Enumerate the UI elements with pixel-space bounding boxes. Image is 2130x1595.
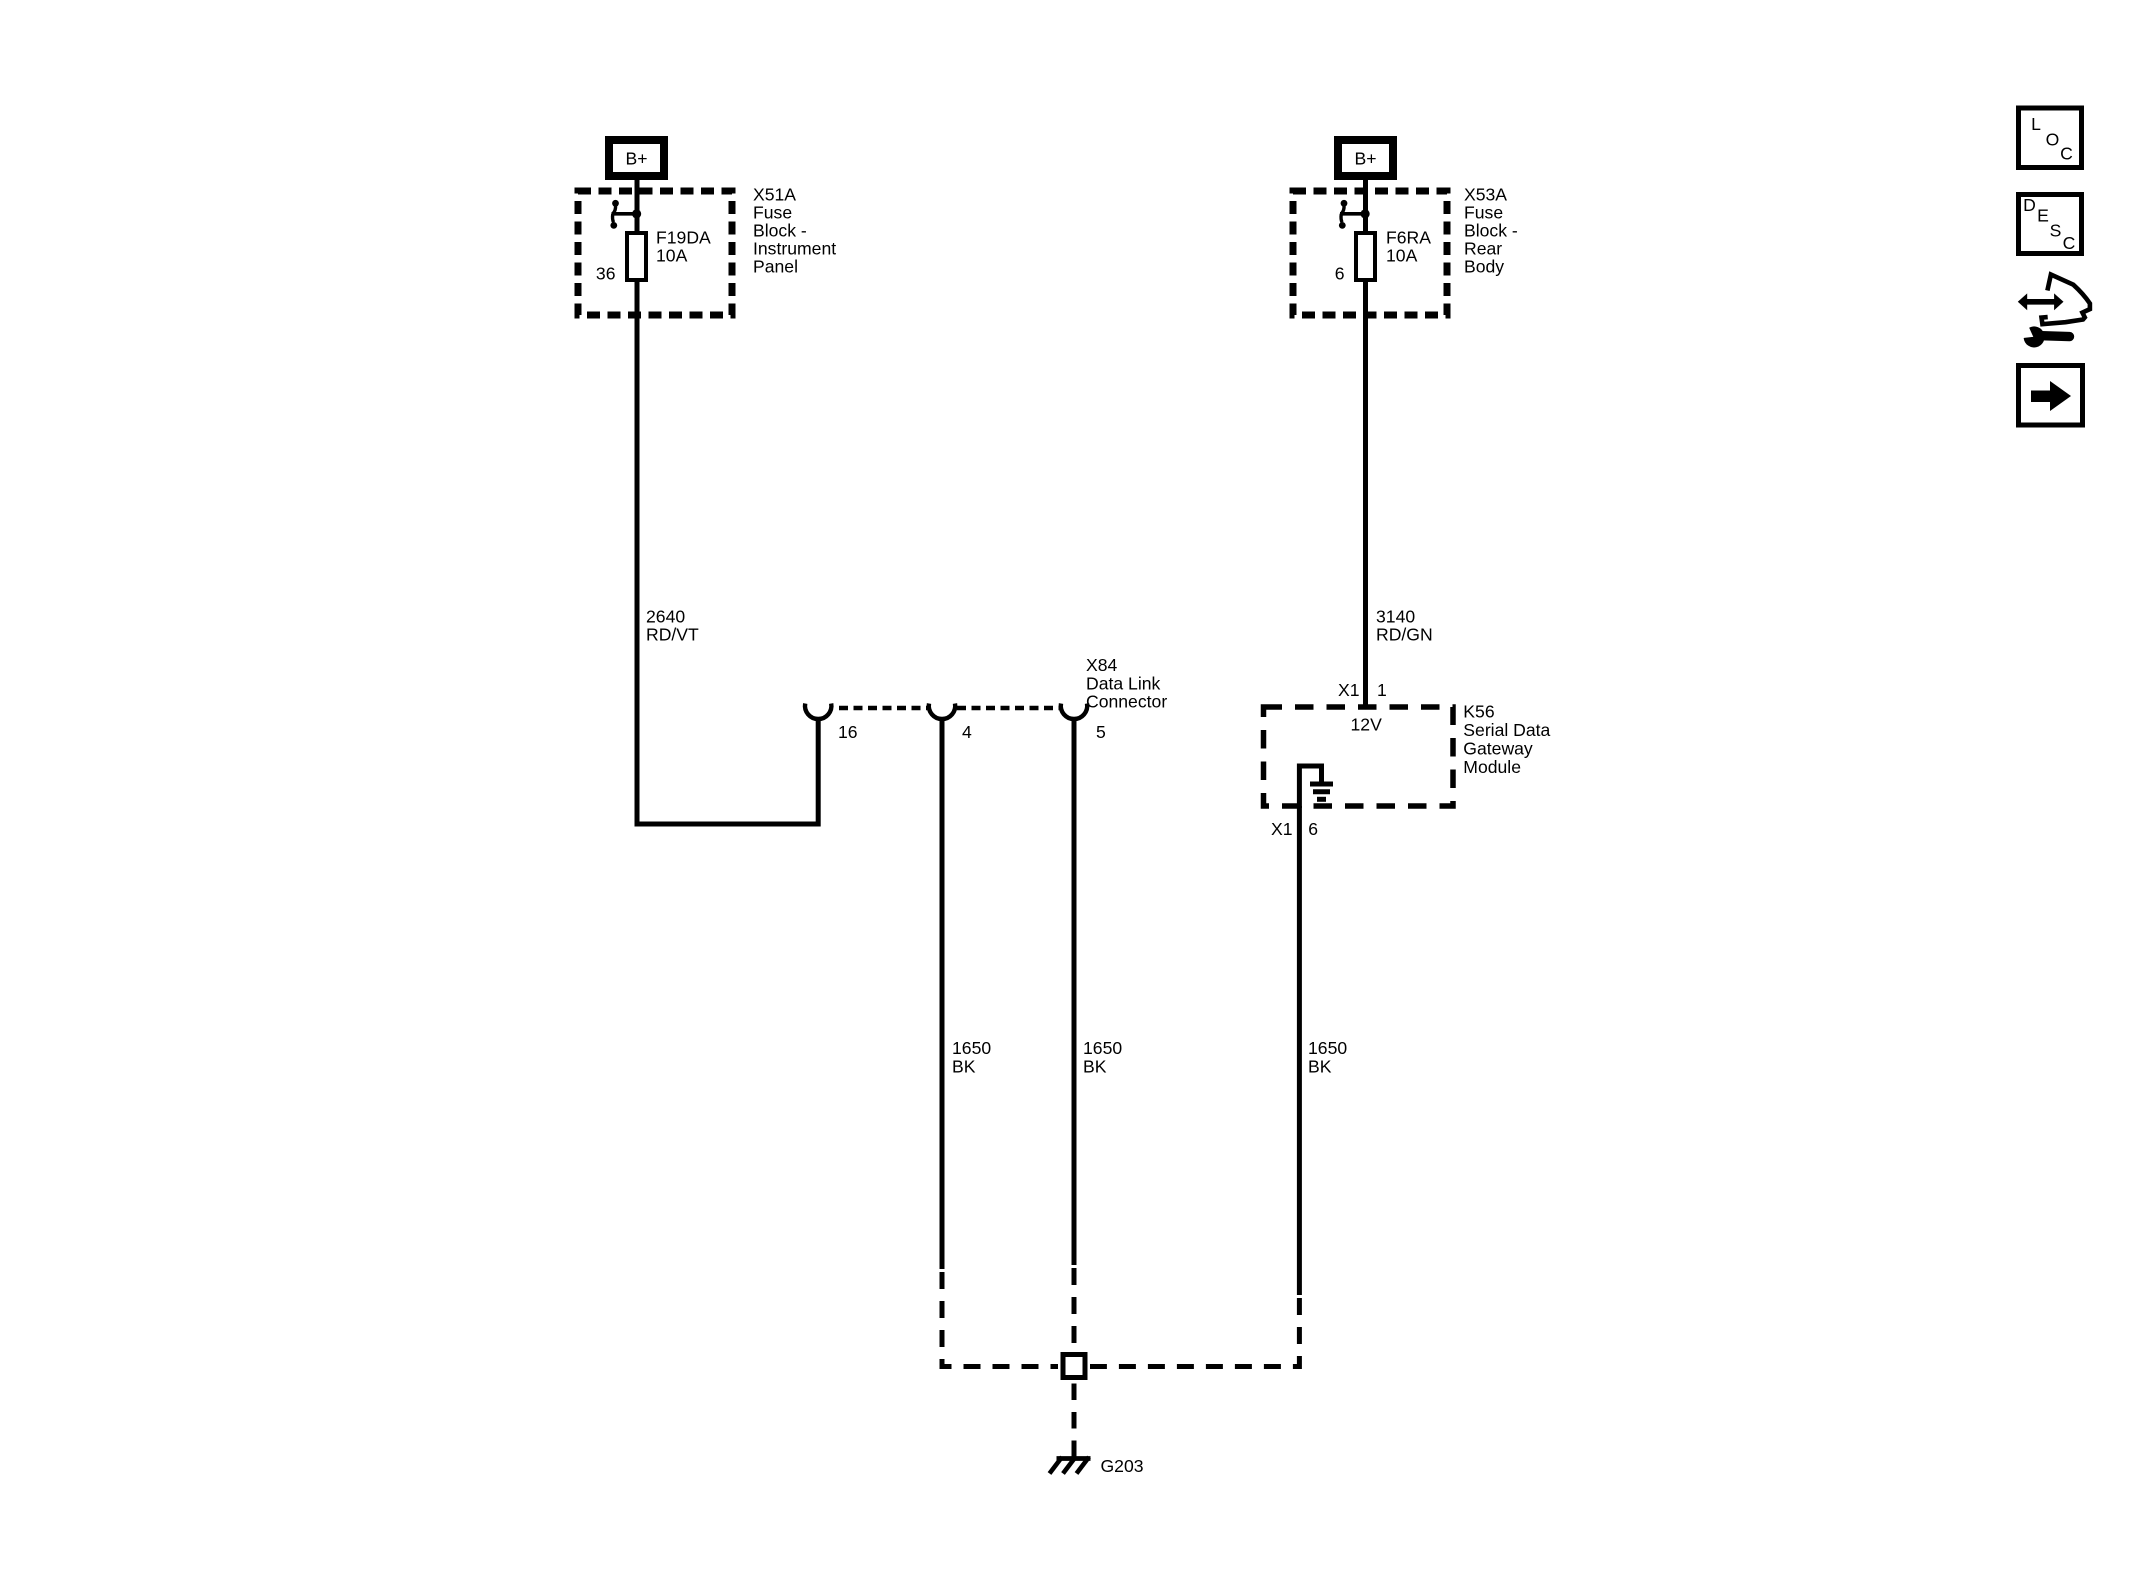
svg-text:S: S [2050,220,2062,240]
svg-text:BK: BK [1083,1056,1107,1076]
svg-text:6: 6 [1308,819,1318,839]
wire B+ to fuse F6RA [1363,180,1368,233]
wire 1650 BK from K56 pin X1-6 (dashed part to splice) [1090,1298,1299,1367]
svg-text:1650: 1650 [1308,1038,1347,1058]
fuse F19DA 10A [627,233,646,280]
svg-text:Serial Data: Serial Data [1463,720,1550,740]
connector X84 pin 5 terminal cup [1061,704,1087,719]
svg-text:X51A: X51A [753,185,796,205]
svg-text:C: C [2063,233,2076,253]
svg-text:Instrument: Instrument [753,239,836,259]
svg-text:Fuse: Fuse [1464,203,1503,223]
wrench [2042,331,2070,341]
svg-text:E: E [2037,206,2049,226]
svg-text:1650: 1650 [952,1038,991,1058]
svg-text:Body: Body [1464,257,1504,277]
svg-text:D: D [2023,195,2036,215]
svg-text:X1: X1 [1271,819,1293,839]
forward/next navigation icon box [2019,366,2083,426]
svg-text:1: 1 [1377,680,1387,700]
LOC navigation icon box [2019,108,2082,168]
connector X84 pin 4 terminal cup [929,704,955,719]
dashed wire splice to ground G203 [1072,1384,1077,1459]
svg-text:X53A: X53A [1464,185,1507,205]
svg-text:RD/GN: RD/GN [1376,625,1433,645]
K56 internal ground symbol [1299,766,1333,808]
svg-text:BK: BK [952,1056,976,1076]
svg-text:RD/VT: RD/VT [646,625,699,645]
svg-text:16: 16 [838,722,858,742]
DESC navigation icon box [2019,195,2082,254]
svg-text:12V: 12V [1351,715,1383,735]
double-headed arrow [2025,299,2058,305]
connector X84 dashed line [839,706,927,710]
svg-text:2640: 2640 [646,606,685,626]
svg-text:Rear: Rear [1464,239,1502,259]
svg-text:Module: Module [1463,757,1521,777]
module K56 dashed box [1264,707,1454,806]
svg-text:L: L [2031,114,2041,134]
wire 1650 BK from X84 pin 5 (dashed part to splice) [1072,1268,1077,1350]
fuse block X51A dashed box [578,191,732,315]
panel outline [2042,275,2090,325]
svg-text:F19DA: F19DA [656,228,711,248]
svg-text:3140: 3140 [1376,606,1415,626]
svg-text:O: O [2046,130,2060,150]
svg-text:B+: B+ [625,149,647,169]
svg-text:Block -: Block - [753,221,807,241]
fuse block bus tap symbol (X51A) [610,200,641,229]
connector X84 pin 16 terminal cup [805,704,831,719]
wire 1650 BK from X84 pin 5 (solid part) [1072,721,1077,1266]
svg-text:BK: BK [1308,1056,1332,1076]
wire 1650 BK from X84 pin 4 (dashed part to splice) [942,1272,1058,1367]
wire 2640 RD/VT (fuse to X84 pin 16) [637,280,818,824]
svg-text:Connector: Connector [1086,692,1167,712]
svg-text:Data Link: Data Link [1086,673,1161,693]
svg-text:Panel: Panel [753,257,798,277]
wire 1650 BK from X84 pin 4 (solid part) [940,721,945,1270]
svg-text:4: 4 [962,722,972,742]
svg-text:5: 5 [1096,722,1106,742]
svg-text:10A: 10A [656,246,688,266]
svg-text:36: 36 [596,264,616,284]
svg-text:10A: 10A [1386,246,1418,266]
svg-text:6: 6 [1335,264,1345,284]
svg-text:C: C [2060,144,2073,164]
B+ power terminal (left) [609,140,664,176]
component-view navigation icon (double arrow, panel outline, wrench) [2018,275,2090,347]
wire 3140 RD/GN (fuse to K56 pin X1-1) [1363,280,1368,709]
svg-text:Gateway: Gateway [1463,739,1533,759]
svg-text:Block -: Block - [1464,221,1518,241]
svg-text:G203: G203 [1101,1456,1144,1476]
svg-text:X1: X1 [1338,680,1360,700]
wire B+ to fuse F19DA [635,180,640,233]
svg-text:K56: K56 [1463,702,1495,722]
fuse block X53A dashed box [1293,191,1447,315]
B+ power terminal (right) [1338,140,1393,176]
svg-text:X84: X84 [1086,655,1118,675]
svg-text:Fuse: Fuse [753,203,792,223]
wire 1650 BK from K56 pin X1-6 (solid part) [1297,806,1302,1295]
ground symbol G203 [1050,1457,1091,1474]
svg-text:F6RA: F6RA [1386,228,1431,248]
fuse block bus tap symbol (X53A) [1339,200,1370,229]
splice S-junction box [1063,1355,1085,1378]
fuse F6RA 10A [1356,233,1375,280]
svg-text:B+: B+ [1354,149,1376,169]
svg-text:1650: 1650 [1083,1038,1122,1058]
